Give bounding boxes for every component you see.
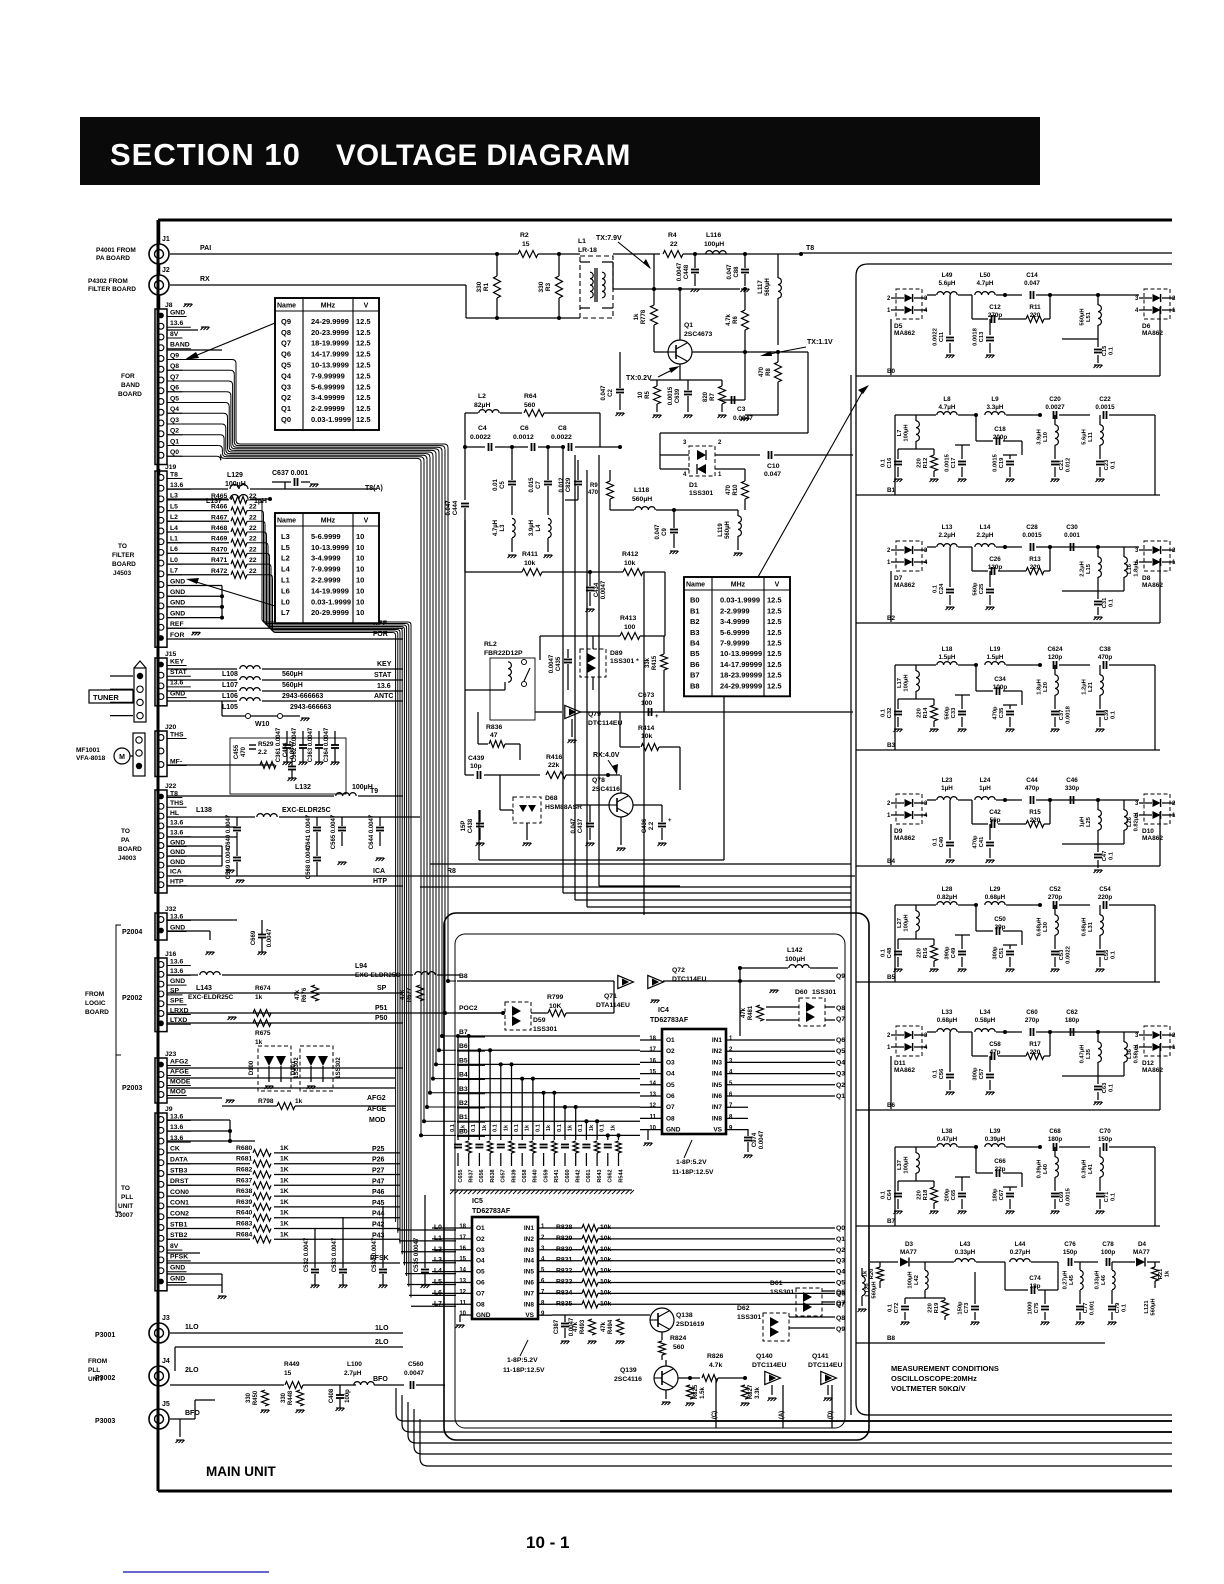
- capacitor C55 0.1 shunt: [1099, 945, 1101, 949]
- mid rail: [613, 288, 740, 290]
- diode D10 MA862: [1144, 794, 1170, 824]
- svg-text:300p: 300p: [993, 946, 999, 960]
- svg-text:C5: C5: [500, 481, 506, 489]
- svg-text:R5: R5: [645, 391, 651, 399]
- svg-text:MHz: MHz: [731, 582, 746, 589]
- MF filter parts C455 470 R529 2.2 C454 0.0047: [167, 764, 275, 766]
- svg-text:Q5: Q5: [170, 395, 179, 402]
- svg-text:0.1: 0.1: [1111, 460, 1117, 469]
- svg-text:L23: L23: [942, 777, 953, 784]
- svg-text:RX: RX: [200, 276, 210, 283]
- svg-text:10: 10: [649, 1126, 656, 1132]
- svg-text:J5: J5: [162, 1401, 170, 1408]
- ground at J8 13.6: [167, 329, 198, 331]
- svg-text:560µH: 560µH: [282, 671, 303, 678]
- svg-text:L138: L138: [196, 807, 212, 814]
- svg-text:390p: 390p: [945, 946, 951, 960]
- svg-text:0.27µH: 0.27µH: [1063, 1271, 1069, 1290]
- svg-text:MA862: MA862: [894, 835, 915, 842]
- svg-text:Q1: Q1: [170, 438, 179, 445]
- svg-text:R529: R529: [258, 741, 274, 748]
- svg-text:IN5: IN5: [712, 1082, 723, 1089]
- svg-text:V: V: [364, 518, 369, 525]
- svg-text:R541: R541: [554, 1169, 560, 1182]
- svg-text:P26: P26: [372, 1157, 385, 1164]
- capacitor C63 0.1 shunt: [1097, 1076, 1099, 1084]
- svg-text:0.001: 0.001: [1064, 532, 1080, 539]
- capacitor C436 2.2: [661, 805, 663, 822]
- svg-text:C560: C560: [408, 1361, 424, 1368]
- svg-text:C69: C69: [1059, 1191, 1065, 1202]
- svg-text:Q7: Q7: [836, 1016, 845, 1023]
- svg-text:D6: D6: [1142, 323, 1151, 330]
- svg-text:O6: O6: [476, 1280, 485, 1287]
- svg-text:1.2µH: 1.2µH: [1082, 679, 1088, 695]
- svg-text:L25: L25: [1086, 816, 1092, 827]
- svg-text:0.33µH: 0.33µH: [955, 1249, 976, 1256]
- svg-text:P25: P25: [372, 1146, 385, 1153]
- svg-text:Q2: Q2: [836, 1082, 845, 1089]
- svg-text:12.5: 12.5: [767, 671, 782, 680]
- svg-text:B8: B8: [690, 681, 700, 690]
- svg-text:0.0022: 0.0022: [551, 434, 572, 441]
- svg-text:P4001 FROM: P4001 FROM: [96, 247, 136, 254]
- svg-text:0.1: 0.1: [535, 1124, 541, 1132]
- capacitor C71 0.1 shunt: [1099, 1187, 1101, 1191]
- svg-text:BOARD: BOARD: [118, 846, 142, 853]
- svg-text:EXC-ELDR25C: EXC-ELDR25C: [188, 994, 233, 1001]
- svg-text:C35: C35: [999, 707, 1005, 718]
- svg-text:0.1: 0.1: [933, 837, 939, 846]
- svg-text:1SS301: 1SS301: [689, 490, 713, 497]
- filter upper wires: [890, 571, 892, 622]
- lower shunt caps: [897, 1181, 899, 1191]
- svg-text:P27: P27: [372, 1168, 385, 1175]
- svg-text:17: 17: [649, 1047, 656, 1053]
- svg-text:R637: R637: [236, 1177, 252, 1184]
- capacitor C53 0.0022 shunt: [1054, 945, 1056, 949]
- svg-text:C79: C79: [1115, 1302, 1121, 1313]
- svg-text:IN4: IN4: [712, 1071, 723, 1078]
- svg-text:470p: 470p: [1025, 785, 1040, 792]
- svg-text:0.33µH: 0.33µH: [1095, 1271, 1101, 1290]
- svg-text:O8: O8: [476, 1301, 485, 1308]
- svg-text:18: 18: [649, 1036, 656, 1042]
- filter area frame: [856, 264, 1172, 1415]
- svg-text:ICA: ICA: [170, 869, 182, 876]
- svg-text:SPE: SPE: [170, 998, 184, 1005]
- svg-text:3.9µH: 3.9µH: [529, 520, 535, 536]
- svg-text:R827: R827: [748, 1384, 754, 1399]
- svg-text:12.5: 12.5: [356, 328, 371, 337]
- inductor L31 0.68µH vertical: [1099, 905, 1101, 915]
- svg-text:20-23.9999: 20-23.9999: [311, 328, 349, 337]
- svg-text:L29: L29: [990, 886, 1001, 893]
- svg-text:15: 15: [649, 1070, 656, 1076]
- svg-text:100p: 100p: [345, 1389, 351, 1403]
- svg-text:D4: D4: [1138, 1241, 1147, 1248]
- svg-text:0.0012: 0.0012: [513, 434, 534, 441]
- svg-text:13.6: 13.6: [170, 320, 183, 327]
- svg-text:C63: C63: [1102, 1082, 1108, 1093]
- svg-text:13.6: 13.6: [170, 482, 183, 489]
- svg-text:22: 22: [670, 241, 678, 248]
- SP wire: [167, 992, 403, 994]
- resistor R827 3.3k: [742, 1385, 749, 1399]
- svg-text:C40: C40: [939, 837, 945, 848]
- svg-text:Q9: Q9: [281, 317, 291, 326]
- svg-text:C644 0.0047: C644 0.0047: [369, 814, 375, 849]
- svg-text:D61: D61: [770, 1280, 783, 1287]
- T9 caps gnd: [338, 862, 347, 865]
- svg-text:C74: C74: [1029, 1275, 1041, 1282]
- svg-text:C76: C76: [1064, 1241, 1076, 1248]
- svg-text:R494: R494: [608, 1319, 614, 1334]
- svg-text:100µH: 100µH: [904, 674, 910, 691]
- svg-text:470: 470: [588, 490, 599, 496]
- svg-text:0.1: 0.1: [557, 1124, 563, 1132]
- svg-text:220: 220: [917, 948, 923, 958]
- svg-text:UNIT: UNIT: [88, 1376, 103, 1383]
- diode D9 MA862: [896, 794, 922, 824]
- svg-text:R638: R638: [490, 1169, 496, 1182]
- svg-text:D68: D68: [545, 795, 558, 802]
- wire RX return rail: [170, 284, 466, 286]
- svg-text:J3: J3: [162, 1315, 170, 1322]
- svg-text:4.7µH: 4.7µH: [493, 520, 499, 536]
- svg-text:L45: L45: [1069, 1274, 1075, 1285]
- transistor Q79 DTC114EU: [565, 705, 581, 718]
- svg-text:L1: L1: [281, 576, 290, 585]
- svg-text:J4503: J4503: [113, 570, 131, 577]
- svg-text:C47: C47: [1102, 851, 1108, 862]
- svg-text:R676: R676: [302, 987, 308, 1002]
- wire bus: [396, 1388, 1172, 1421]
- svg-text:11: 11: [650, 1114, 657, 1120]
- caps C640 C641 C565 C644 row: [236, 817, 238, 826]
- node T8 top: [799, 252, 803, 256]
- svg-text:P45: P45: [372, 1200, 385, 1207]
- svg-text:L35: L35: [1086, 1048, 1092, 1059]
- capacitor C47 0.1 shunt: [1097, 844, 1099, 852]
- capacitor C56 0.1 shunt: [949, 1032, 951, 1072]
- svg-text:IN6: IN6: [524, 1280, 535, 1287]
- svg-text:MEASUREMENT CONDITIONS: MEASUREMENT CONDITIONS: [891, 1364, 999, 1373]
- svg-text:L3: L3: [281, 532, 290, 541]
- resistor R8 470: [775, 362, 782, 382]
- svg-text:R412: R412: [622, 551, 638, 558]
- svg-text:Q1: Q1: [836, 1093, 845, 1100]
- digital block inner frame: [455, 934, 845, 1428]
- svg-text:0.0015: 0.0015: [945, 453, 951, 472]
- svg-text:C16: C16: [887, 457, 893, 468]
- band table Q0-Q9: [275, 298, 379, 430]
- svg-text:R470: R470: [211, 546, 227, 553]
- svg-text:0.47µH: 0.47µH: [937, 1136, 958, 1143]
- svg-text:Q4: Q4: [170, 406, 179, 413]
- svg-text:180p: 180p: [993, 1188, 999, 1202]
- svg-text:Q5: Q5: [836, 1280, 845, 1287]
- svg-text:2SC4116: 2SC4116: [592, 786, 620, 793]
- svg-text:0.68µH: 0.68µH: [985, 894, 1006, 901]
- svg-text:IN8: IN8: [712, 1115, 723, 1122]
- wire to R4: [613, 253, 660, 255]
- svg-text:7-9.9999: 7-9.9999: [311, 565, 341, 574]
- svg-text:B2: B2: [887, 615, 896, 622]
- svg-text:4.7k: 4.7k: [726, 314, 732, 326]
- svg-text:L40: L40: [1043, 1164, 1049, 1174]
- band table L0-L7: [275, 513, 379, 623]
- capacitor C77 0.001: [1079, 1298, 1081, 1304]
- svg-text:C8: C8: [558, 425, 567, 432]
- svg-text:10: 10: [356, 586, 364, 595]
- resistor R20 1k: [877, 1267, 884, 1281]
- inductor L16 1.8µH vertical: [1123, 547, 1125, 557]
- LRXD wire P51: [167, 1012, 503, 1014]
- svg-text:10-13.9999: 10-13.9999: [311, 361, 349, 370]
- svg-text:O4: O4: [666, 1071, 675, 1078]
- svg-text:C655: C655: [458, 1169, 464, 1182]
- svg-text:R414: R414: [638, 725, 654, 732]
- LTXD wire P50: [167, 1022, 403, 1024]
- svg-text:1.8µH: 1.8µH: [1134, 561, 1140, 577]
- svg-text:0.39µH: 0.39µH: [1082, 1160, 1088, 1179]
- svg-text:HTP: HTP: [373, 878, 387, 885]
- svg-text:D89: D89: [610, 650, 623, 657]
- svg-text:L108: L108: [222, 671, 238, 678]
- capacitor C434 0.0047: [589, 572, 591, 586]
- svg-text:GND: GND: [170, 309, 185, 316]
- capacitor C15 0.1 shunt: [1097, 339, 1099, 347]
- svg-text:0.0022: 0.0022: [933, 328, 939, 346]
- svg-text:4.7µH: 4.7µH: [977, 280, 994, 287]
- svg-text:0.1: 0.1: [450, 1124, 456, 1132]
- svg-text:GND: GND: [170, 839, 185, 846]
- svg-text:C41: C41: [979, 836, 985, 847]
- svg-text:12.5: 12.5: [767, 628, 782, 637]
- svg-text:C31: C31: [1102, 597, 1108, 608]
- svg-text:THS: THS: [170, 800, 184, 807]
- svg-text:L3: L3: [500, 524, 506, 532]
- svg-text:0.1: 0.1: [600, 1124, 606, 1132]
- svg-text:1K: 1K: [280, 1156, 289, 1163]
- svg-text:FROM: FROM: [85, 991, 104, 998]
- svg-text:0.01: 0.01: [493, 479, 499, 491]
- svg-text:B8: B8: [887, 1335, 896, 1342]
- svg-text:TO: TO: [121, 1185, 130, 1192]
- connector J20: [155, 731, 167, 777]
- svg-text:B6: B6: [887, 1102, 896, 1109]
- svg-text:MODE: MODE: [170, 1078, 191, 1085]
- wire bus: [420, 1419, 1172, 1466]
- svg-text:10: 10: [638, 391, 644, 398]
- svg-text:TO: TO: [121, 828, 130, 835]
- svg-text:L119: L119: [718, 523, 724, 537]
- svg-text:L116: L116: [706, 232, 721, 239]
- svg-text:O4: O4: [476, 1258, 485, 1265]
- inductor L11 5.6µH vertical: [1099, 415, 1101, 425]
- svg-text:R468: R468: [211, 525, 227, 532]
- svg-text:2LO: 2LO: [375, 1339, 389, 1346]
- svg-text:3.3k: 3.3k: [755, 1387, 761, 1399]
- svg-text:Q1: Q1: [684, 322, 693, 329]
- svg-text:C53: C53: [1059, 949, 1065, 960]
- svg-text:8V: 8V: [170, 331, 179, 338]
- svg-text:1.5µH: 1.5µH: [987, 654, 1004, 661]
- svg-text:Q3: Q3: [836, 1258, 845, 1265]
- svg-text:100µH: 100µH: [904, 1156, 910, 1173]
- svg-text:560p: 560p: [945, 706, 951, 720]
- svg-text:4.7µH: 4.7µH: [939, 404, 956, 411]
- svg-text:0.047: 0.047: [601, 385, 607, 401]
- svg-text:16: 16: [459, 1246, 466, 1252]
- svg-text:O3: O3: [666, 1059, 675, 1066]
- svg-text:MHz: MHz: [321, 303, 336, 310]
- svg-text:L4: L4: [281, 565, 291, 574]
- svg-text:C4: C4: [478, 425, 487, 432]
- svg-text:C13: C13: [979, 331, 985, 342]
- svg-text:C42: C42: [989, 809, 1001, 816]
- svg-text:ICA: ICA: [373, 868, 385, 875]
- svg-text:C439: C439: [468, 755, 484, 762]
- svg-text:Q7: Q7: [170, 374, 179, 381]
- svg-text:R14: R14: [923, 707, 929, 718]
- svg-text:17: 17: [459, 1235, 466, 1241]
- svg-text:SECTION 10: SECTION 10: [110, 137, 301, 172]
- inductor L26 0.82µH vertical: [1123, 800, 1125, 810]
- wire bus: [408, 1402, 1172, 1443]
- svg-text:L6: L6: [281, 586, 290, 595]
- svg-text:Q2: Q2: [170, 428, 179, 435]
- connector J22: [155, 790, 167, 893]
- svg-text:L2: L2: [281, 554, 290, 563]
- svg-text:C44: C44: [1026, 777, 1038, 784]
- svg-text:GND: GND: [170, 849, 185, 856]
- svg-text:R11: R11: [1029, 304, 1041, 311]
- svg-text:2SD1619: 2SD1619: [676, 1321, 705, 1328]
- svg-text:R683: R683: [236, 1221, 252, 1228]
- arrow from L table to J19: [193, 581, 275, 606]
- svg-text:0.0047: 0.0047: [290, 740, 296, 759]
- svg-text:150p: 150p: [1063, 1249, 1078, 1256]
- svg-text:1k: 1k: [461, 1124, 467, 1131]
- caps C532 C533 C534 C535 0.0047: [314, 1228, 316, 1268]
- svg-text:VS: VS: [525, 1312, 534, 1319]
- svg-text:L118: L118: [634, 487, 649, 494]
- svg-text:(C): (C): [712, 1411, 718, 1419]
- svg-text:0.012: 0.012: [1066, 458, 1072, 473]
- svg-text:L9: L9: [991, 396, 999, 403]
- svg-text:C455: C455: [234, 744, 240, 759]
- svg-text:10-13.9999: 10-13.9999: [311, 543, 349, 552]
- svg-text:5-6.9999: 5-6.9999: [720, 628, 750, 637]
- svg-text:0.1: 0.1: [881, 708, 887, 717]
- svg-text:L36: L36: [1127, 1048, 1133, 1059]
- transistor Q140 DTC114EU: [765, 1371, 781, 1384]
- svg-text:13.6: 13.6: [170, 913, 183, 920]
- svg-text:150p: 150p: [1098, 1136, 1113, 1143]
- svg-text:300p: 300p: [973, 1067, 979, 1081]
- 13.6 bus J9: [167, 1119, 230, 1121]
- capacitor C67 180p shunt: [1009, 1187, 1011, 1191]
- svg-text:C7: C7: [536, 481, 542, 489]
- svg-text:0.58µH: 0.58µH: [1134, 1045, 1140, 1064]
- svg-text:R677: R677: [407, 987, 413, 1002]
- svg-text:TX:0.2V: TX:0.2V: [626, 375, 652, 382]
- svg-text:GND: GND: [170, 924, 185, 931]
- svg-text:L105: L105: [222, 704, 238, 711]
- jumper W10: [246, 714, 251, 719]
- IC5 gnd: [459, 1315, 461, 1322]
- AFG2 AFGE MOD wires: [167, 1067, 403, 1069]
- svg-text:2.2: 2.2: [649, 821, 655, 830]
- svg-text:PA: PA: [121, 837, 130, 844]
- svg-text:J3007: J3007: [115, 1212, 133, 1219]
- svg-text:C533 0.0047: C533 0.0047: [332, 1237, 338, 1272]
- svg-text:Name: Name: [277, 303, 296, 310]
- svg-text:L16: L16: [1127, 563, 1133, 574]
- svg-text:R4: R4: [668, 232, 677, 239]
- svg-text:15: 15: [459, 1257, 466, 1263]
- emitter rail TX1.1V: [692, 351, 808, 353]
- svg-text:11: 11: [460, 1300, 467, 1306]
- svg-text:C974: C974: [752, 1132, 758, 1147]
- svg-text:0.012: 0.012: [559, 477, 565, 493]
- svg-text:24-29.99999: 24-29.99999: [720, 681, 762, 690]
- svg-text:THS: THS: [170, 731, 184, 738]
- svg-text:O5: O5: [666, 1082, 675, 1089]
- svg-text:180p: 180p: [1065, 1017, 1080, 1024]
- svg-text:5.6µH: 5.6µH: [939, 280, 956, 287]
- svg-text:C57: C57: [979, 1069, 985, 1080]
- svg-text:2.2µH: 2.2µH: [939, 532, 956, 539]
- svg-text:13.6: 13.6: [170, 1113, 183, 1120]
- svg-text:C658: C658: [522, 1169, 528, 1182]
- svg-text:1k: 1k: [482, 1124, 488, 1131]
- svg-text:C72: C72: [894, 1303, 900, 1314]
- svg-text:10k: 10k: [624, 560, 636, 567]
- svg-text:10: 10: [356, 554, 364, 563]
- svg-text:L94: L94: [355, 963, 367, 970]
- svg-text:C659: C659: [543, 1169, 549, 1182]
- svg-text:0.1: 0.1: [881, 948, 887, 957]
- svg-text:1LO: 1LO: [185, 1324, 199, 1331]
- svg-text:L41: L41: [1088, 1163, 1094, 1174]
- svg-text:GND: GND: [170, 1275, 185, 1282]
- svg-text:10k: 10k: [641, 733, 653, 740]
- svg-text:L132: L132: [295, 784, 311, 791]
- svg-text:GND: GND: [170, 859, 185, 866]
- resistor R494 47k: [617, 1319, 624, 1335]
- svg-text:1SS301: 1SS301: [737, 1314, 761, 1321]
- svg-text:C77: C77: [1083, 1303, 1089, 1314]
- svg-text:R682: R682: [236, 1167, 252, 1174]
- svg-text:C657: C657: [501, 1169, 507, 1182]
- svg-text:0.0018: 0.0018: [973, 327, 979, 346]
- svg-text:R10: R10: [733, 484, 739, 496]
- svg-text:R640: R640: [236, 1210, 252, 1217]
- svg-text:L1: L1: [578, 238, 586, 245]
- svg-text:C65: C65: [951, 1189, 957, 1200]
- svg-text:DATA: DATA: [170, 1157, 188, 1164]
- svg-text:2-2.99999: 2-2.99999: [311, 404, 345, 413]
- capacitor C31 0.1 shunt: [1097, 591, 1099, 599]
- svg-text:14-17.99999: 14-17.99999: [720, 660, 762, 669]
- svg-text:FILTER: FILTER: [112, 552, 135, 559]
- svg-text:L27: L27: [897, 918, 903, 928]
- svg-text:D3: D3: [905, 1241, 914, 1248]
- svg-text:IC5: IC5: [472, 1198, 483, 1205]
